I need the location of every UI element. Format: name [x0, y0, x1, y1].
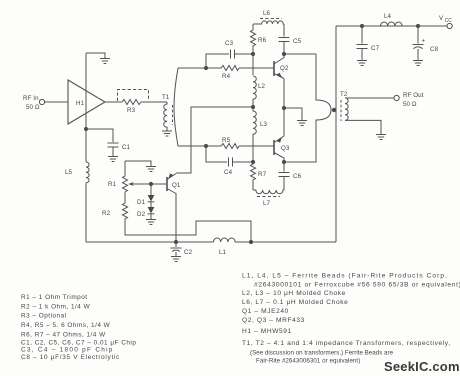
node T2 center tap	[332, 108, 336, 112]
parts list right column	[242, 273, 460, 365]
diode D2	[137, 202, 154, 218]
node R6 C3 junction	[251, 52, 255, 56]
wire T1 secondary bottom to node	[178, 145, 206, 147]
node Q1 base junction	[149, 182, 153, 186]
inductor L3	[253, 107, 268, 162]
svg-text:R6, R7 – 47 Ohms, 1/4 W: R6, R7 – 47 Ohms, 1/4 W	[21, 331, 106, 338]
resistor R3	[122, 100, 141, 115]
node emitter junction	[282, 106, 286, 110]
dashed optional box around R3	[118, 90, 149, 102]
transistor Q1	[167, 173, 181, 242]
svg-text:C1, C2, C5, C6, C7 – 0.01 μF C: C1, C2, C5, C6, C7 – 0.01 μF Chip	[21, 340, 136, 347]
svg-text:R2 – 1 k Ohm, 1/4 W: R2 – 1 k Ohm, 1/4 W	[21, 303, 91, 310]
node T1 bottom junction	[204, 144, 208, 148]
transformer T2 primary loop	[316, 54, 331, 161]
node RF Out label	[403, 92, 424, 108]
T2 core dashes	[340, 100, 342, 121]
svg-text:50 Ω: 50 Ω	[403, 101, 417, 108]
svg-text:L3: L3	[260, 121, 268, 128]
capacitor C5	[279, 38, 302, 55]
svg-text:C3, C4 – 1800 pF Chip: C3, C4 – 1800 pF Chip	[21, 347, 114, 354]
svg-text:R1: R1	[108, 181, 117, 188]
svg-text:SeekIC.com: SeekIC.com	[384, 359, 460, 374]
svg-text:R1 – 1 Ohm Trimpot: R1 – 1 Ohm Trimpot	[21, 294, 88, 301]
node L2 L3 junction	[251, 105, 255, 109]
node T1 top junction	[204, 66, 208, 70]
wire Q2 emitter down	[283, 79, 285, 109]
node junction below H1	[84, 127, 88, 131]
ground below T1	[162, 131, 172, 136]
ground below C1	[108, 157, 118, 162]
inductor L2	[253, 76, 266, 107]
svg-text:+: +	[422, 38, 426, 45]
svg-text:R3: R3	[127, 107, 136, 114]
ground top of H1	[100, 59, 110, 64]
wire input to H1	[45, 101, 68, 103]
ground below D2	[146, 214, 156, 225]
wire L6 to C5	[283, 24, 285, 37]
transistor Q3	[274, 108, 290, 162]
svg-text:C3: C3	[225, 40, 234, 47]
svg-text:Q2: Q2	[280, 65, 289, 72]
diode D1	[137, 184, 154, 206]
wire to top ground	[86, 53, 105, 58]
svg-text:R7: R7	[258, 171, 267, 178]
transistor Q2	[274, 54, 289, 79]
svg-text:T1: T1	[162, 94, 170, 101]
wire C4 branch down	[206, 146, 227, 162]
svg-text:T2: T2	[340, 91, 348, 98]
node C7 junction	[360, 24, 364, 28]
svg-text:RF Out: RF Out	[403, 92, 424, 99]
svg-text:R6: R6	[258, 37, 267, 44]
svg-text:C1: C1	[122, 144, 131, 151]
op-amp H1	[68, 80, 105, 124]
svg-text:D1: D1	[137, 199, 146, 206]
svg-text:T1, T2 – 4:1 and 1:4 impedance: T1, T2 – 4:1 and 1:4 impedance Transform…	[242, 340, 451, 347]
node Vcc label	[439, 15, 452, 24]
node C8 junction	[416, 24, 420, 28]
resistor R5	[206, 137, 239, 149]
svg-text:L2, L3 – 10 μH Molded Choke: L2, L3 – 10 μH Molded Choke	[242, 290, 346, 297]
resistor R1	[108, 161, 128, 192]
svg-text:Q1 – MJE240: Q1 – MJE240	[242, 308, 289, 315]
node R7 junction	[251, 160, 255, 164]
svg-text:CC: CC	[445, 18, 453, 24]
resistor R4	[206, 66, 239, 81]
ground below C2	[171, 257, 181, 262]
svg-text:D2: D2	[137, 211, 146, 218]
svg-text:#2643000101 or Ferroxcube #56: #2643000101 or Ferroxcube #56 590 65/3B …	[254, 282, 460, 289]
svg-text:L6: L6	[263, 10, 271, 17]
wire to center ground	[284, 108, 302, 120]
node RF In label	[23, 95, 40, 111]
wire Q1 base	[151, 183, 167, 185]
ground T2 secondary	[376, 135, 386, 140]
ground above R1 branch	[146, 167, 156, 172]
svg-text:50 Ω: 50 Ω	[26, 104, 40, 111]
wire Q3 collector to T2	[284, 161, 316, 162]
capacitor C8 polarized	[413, 26, 439, 60]
capacitor C6	[279, 162, 302, 190]
svg-text:C2: C2	[184, 249, 193, 256]
svg-text:L4: L4	[384, 13, 392, 20]
transformer T1 secondary winding	[174, 68, 178, 146]
inductor L7	[253, 190, 284, 207]
top supply rail	[336, 25, 447, 27]
resistor R7	[251, 162, 267, 190]
T1 core dashes	[172, 105, 174, 125]
inductor L6	[253, 10, 284, 24]
resistor R6	[251, 24, 267, 54]
svg-text:C8 – 10 μF/35 V Electrolytic: C8 – 10 μF/35 V Electrolytic	[21, 354, 120, 361]
resistor R2	[102, 192, 128, 233]
svg-text:C5: C5	[293, 38, 302, 45]
wire C4 to node	[233, 161, 253, 163]
svg-text:R4: R4	[222, 73, 231, 80]
svg-text:C6: C6	[293, 173, 302, 180]
wire H1 output	[105, 101, 122, 103]
bottom rail	[86, 241, 214, 243]
RF In terminal	[39, 99, 44, 104]
wire junction down to L5	[85, 129, 87, 162]
capacitor C1	[108, 143, 131, 156]
transformer T2 secondary	[340, 91, 348, 120]
svg-text:L7: L7	[263, 200, 271, 207]
L7 core dashes	[257, 196, 280, 198]
node L1 right junction	[249, 240, 253, 244]
capacitor C7	[357, 26, 380, 60]
ground below C7	[357, 61, 367, 66]
trimpot R1 wiper arrow	[128, 182, 151, 186]
svg-text:C7: C7	[371, 45, 380, 52]
wire R5 to Q3 base	[239, 145, 274, 147]
inductor L5	[65, 162, 89, 183]
svg-text:H1 – MHW591: H1 – MHW591	[242, 328, 292, 335]
wire T2 bottom tap to ground	[345, 120, 381, 134]
L6 core dashes	[260, 18, 282, 20]
svg-text:R4, R5 – 5. 6 Ohms, 1/4 W: R4, R5 – 5. 6 Ohms, 1/4 W	[21, 322, 111, 329]
node Q2 collector junction	[282, 52, 286, 56]
Vcc terminal	[447, 23, 452, 28]
svg-text:L1, L4, L5 – Ferrite Beads (Fa: L1, L4, L5 – Ferrite Beads (Fair-Rite Pr…	[242, 273, 448, 280]
svg-text:L1: L1	[219, 249, 227, 256]
svg-text:C8: C8	[430, 46, 439, 53]
wire Vcc rail vertical	[335, 26, 337, 242]
svg-text:Q3: Q3	[281, 145, 290, 152]
wire R4 to Q2 base	[239, 67, 274, 69]
capacitor C3	[225, 40, 235, 59]
ground center tap	[297, 121, 307, 126]
wire R3 to T1	[141, 101, 167, 103]
wire T2 top tap to RF Out	[345, 97, 394, 99]
svg-text:L2: L2	[258, 83, 266, 90]
node Q1 emitter junction	[174, 240, 178, 244]
wire junction to C1	[86, 129, 113, 142]
wire C3 branch up	[206, 54, 229, 68]
svg-text:R3 – Optional: R3 – Optional	[21, 313, 67, 320]
svg-text:Q2, Q3 – MRF433: Q2, Q3 – MRF433	[242, 317, 305, 324]
inductor L1	[214, 238, 236, 256]
svg-text:L6, L7 – 0.1 μH Molded Choke: L6, L7 – 0.1 μH Molded Choke	[242, 299, 348, 306]
svg-text:Fair-Rite #2643006301 or equiv: Fair-Rite #2643006301 or equivalent)	[256, 358, 360, 365]
capacitor C4	[224, 158, 233, 177]
svg-text:Q1: Q1	[172, 182, 181, 189]
bottom rail right	[235, 241, 336, 243]
RF Out terminal	[394, 95, 399, 100]
inductor L4	[381, 13, 403, 26]
svg-text:(See discussion on transformer: (See discussion on transformers.) Ferrit…	[250, 350, 394, 357]
wire collector rail down through base row	[252, 54, 254, 75]
ground below C8	[413, 61, 423, 66]
svg-text:V: V	[439, 15, 444, 22]
wire L5 to bottom rail	[85, 183, 87, 242]
svg-text:L5: L5	[65, 169, 73, 176]
svg-text:H1: H1	[76, 100, 85, 107]
parts list left column	[21, 294, 136, 361]
wire C3 to collector rail	[235, 53, 254, 55]
wire T1 secondary top to node	[178, 67, 206, 69]
wire R2 jog over L1	[125, 221, 251, 242]
node Q3 collector junction	[282, 160, 286, 164]
transformer T1 primary	[162, 94, 170, 131]
wire Q2 collector to T2	[284, 53, 316, 55]
capacitor C2	[171, 242, 193, 256]
wire R1 top to ground	[125, 161, 151, 166]
wire bias center-tap rail	[176, 107, 253, 173]
svg-text:R5: R5	[222, 137, 231, 144]
svg-text:RF In: RF In	[23, 95, 39, 102]
svg-text:C4: C4	[224, 169, 233, 176]
svg-text:R2: R2	[102, 210, 111, 217]
wire H1 power vertical	[85, 53, 87, 129]
